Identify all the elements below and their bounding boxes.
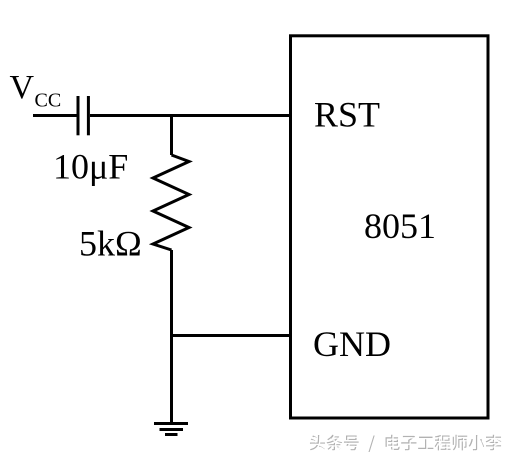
svg-text:10μF: 10μF bbox=[53, 147, 128, 187]
svg-text:CC: CC bbox=[35, 90, 62, 112]
svg-text:5kΩ: 5kΩ bbox=[79, 224, 142, 264]
svg-text:RST: RST bbox=[314, 95, 380, 135]
svg-text:8051: 8051 bbox=[364, 206, 436, 246]
svg-text:V: V bbox=[10, 69, 35, 106]
svg-text:GND: GND bbox=[313, 324, 391, 364]
